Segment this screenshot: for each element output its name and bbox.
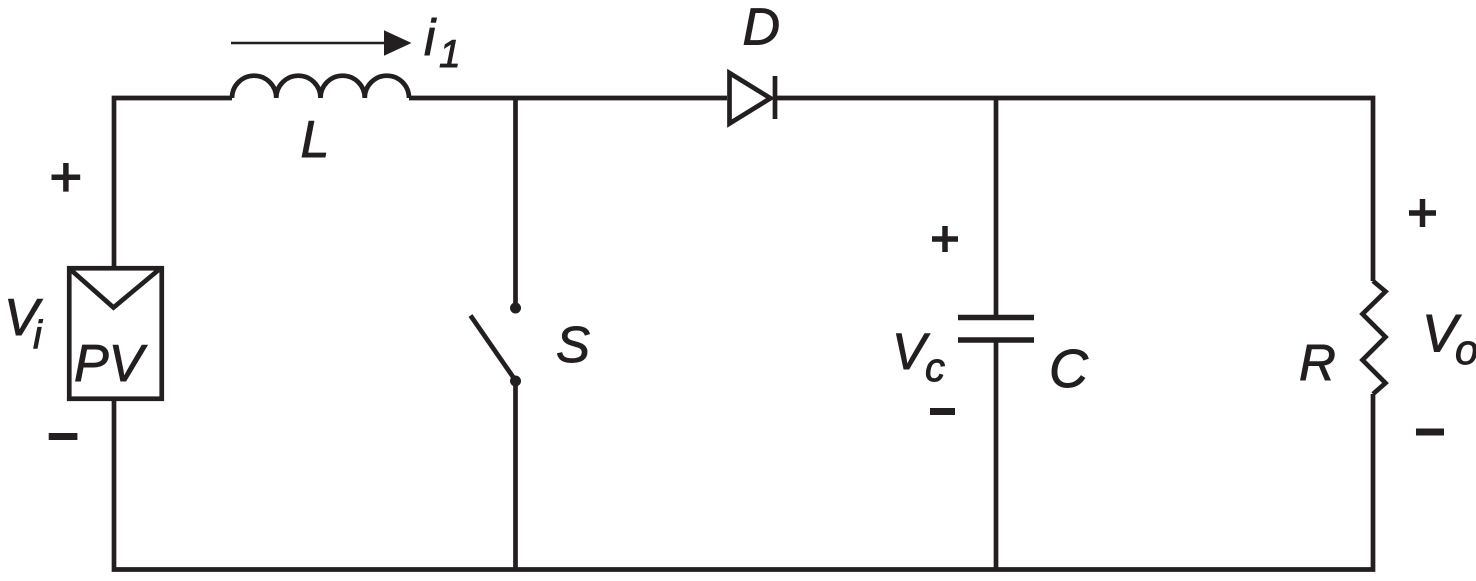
wire top-left segment: [114, 98, 232, 268]
inductor L: [232, 76, 409, 98]
PV chevron: [71, 270, 159, 308]
svg-text:c: c: [925, 346, 945, 390]
capacitor C bottom plate: [958, 337, 1034, 343]
svg-text:C: C: [1049, 339, 1089, 399]
minus sign Vo: [1416, 429, 1444, 436]
svg-text:i: i: [33, 314, 43, 358]
svg-text:o: o: [1455, 326, 1476, 373]
svg-text:R: R: [1299, 334, 1336, 391]
switch top contact dot: [510, 303, 521, 314]
minus sign Vc: [930, 408, 955, 415]
plus sign Vo: [1409, 199, 1436, 227]
PV source box: [69, 268, 162, 399]
svg-text:PV: PV: [74, 335, 148, 393]
diode cathode bar: [773, 76, 778, 119]
svg-text:S: S: [556, 316, 590, 373]
diode D: [730, 73, 771, 124]
capacitor C top plate: [958, 315, 1034, 321]
wire switch upper: [513, 98, 518, 303]
minus sign Vi: [49, 433, 78, 440]
current arrow i1: [231, 42, 386, 45]
wire top-middle: [409, 96, 727, 101]
svg-text:D: D: [743, 0, 781, 57]
switch bottom contact dot: [510, 376, 521, 387]
switch blade: [471, 316, 516, 381]
wire capacitor lower: [994, 340, 999, 570]
svg-text:1: 1: [439, 33, 461, 76]
wire capacitor upper: [994, 98, 999, 317]
wire bottom loop: [114, 394, 1373, 570]
svg-text:L: L: [301, 111, 330, 169]
resistor R: [1363, 281, 1386, 394]
wire switch lower: [513, 381, 518, 570]
wire top-right: [775, 98, 1373, 281]
plus sign Vi: [52, 163, 81, 192]
svg-text:i: i: [424, 9, 437, 66]
arrowhead: [384, 30, 412, 56]
plus sign Vc: [932, 226, 958, 252]
